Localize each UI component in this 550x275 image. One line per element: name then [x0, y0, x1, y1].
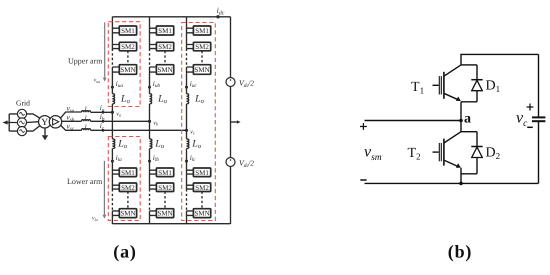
svg-text:Lo: Lo: [191, 139, 202, 150]
svg-text:SM2: SM2: [121, 43, 135, 51]
upper arm voltage bracket arrow v_ua: [104, 22, 106, 77]
lower arm current i_lc junction: [186, 149, 188, 190]
submodule SM1 lower leg a: [119, 168, 136, 177]
wires sources to transformer: [27, 114, 40, 131]
svg-text:Lo: Lo: [154, 139, 165, 150]
top rail wire: [461, 54, 539, 65]
leg b lower dashed continuation wire: [149, 189, 151, 211]
leg c wire inductor to AC node: [186, 104, 188, 130]
svg-text:SM1: SM1: [195, 27, 209, 35]
leg c upper dashed continuation wire: [186, 49, 188, 67]
leg c lower dashed continuation wire: [186, 189, 188, 211]
leg c lower SMN connection wire: [187, 211, 194, 224]
upper arm inductor L_o leg b: [150, 94, 152, 104]
submodule SM2 lower leg a: [119, 183, 136, 192]
phase current label i_a and junction: [102, 111, 105, 114]
leg a lower dashed continuation wire: [111, 189, 113, 211]
lower arm inductor L_o leg b: [150, 139, 152, 149]
upper arm inductor L_o leg c: [187, 94, 189, 104]
SM terminal wire +: [365, 120, 462, 122]
submodule SM2 lower leg c: [193, 183, 210, 192]
AC node v_a: [111, 111, 114, 114]
svg-text:ilc: ilc: [190, 153, 197, 163]
submodule SM2 upper leg c: [193, 42, 210, 51]
submodule SM1 lower leg c: [193, 168, 210, 177]
phase c wire from transformer: [60, 125, 81, 130]
diode D2: [476, 132, 478, 147]
phase b wire from transformer: [62, 120, 82, 122]
svg-text:ilb: ilb: [153, 153, 160, 163]
upper arm current i_ub junction: [148, 86, 151, 89]
svg-text:/2: /2: [247, 158, 254, 167]
svg-text:(a): (a): [113, 242, 136, 262]
transformer delta winding: [49, 116, 61, 128]
svg-text:D2: D2: [486, 145, 501, 161]
leg a lower SMN connection wire: [112, 211, 119, 224]
svg-text:SM2: SM2: [121, 184, 135, 192]
svg-text:vsm: vsm: [364, 143, 382, 163]
svg-text:ila: ila: [116, 153, 123, 163]
DC midpoint arrow: [231, 121, 237, 123]
transformer ground arrow: [44, 128, 46, 135]
svg-text:l: l: [85, 105, 87, 113]
svg-text:vb: vb: [153, 120, 159, 126]
svg-text:Lo: Lo: [120, 94, 131, 105]
red dashed box lower arm leg a: [108, 137, 140, 221]
svg-text:SM2: SM2: [195, 43, 209, 51]
leg a lower chain wire: [112, 170, 119, 189]
svg-text:l: l: [85, 114, 87, 122]
bottom rail wire: [365, 182, 539, 184]
leg b upper SMN connection wire: [150, 67, 157, 94]
svg-text:T2: T2: [408, 146, 421, 162]
upper arm inductor L_o leg a: [112, 94, 114, 104]
node a: [459, 119, 463, 123]
leg c upper chain wire: [187, 17, 194, 49]
phase b wire to leg: [91, 120, 150, 122]
svg-text:Lo: Lo: [157, 94, 168, 105]
svg-text:vc: vc: [190, 129, 195, 135]
wire T2 emitter to bottom rail: [460, 168, 462, 184]
upper arm current i_ua junction: [111, 86, 114, 89]
svg-text:SMN: SMN: [194, 210, 209, 218]
lower arm current i_lb junction: [149, 149, 151, 190]
svg-text:/2: /2: [247, 78, 254, 87]
diode D1: [476, 65, 478, 80]
upper arm current i_uc junction: [185, 86, 188, 89]
red dashed box full leg c: [182, 23, 216, 221]
submodule SMN lower leg b: [156, 209, 173, 218]
submodule SM1 upper leg a: [119, 26, 136, 35]
AC source phase c: [17, 127, 26, 136]
svg-text:SM1: SM1: [121, 169, 135, 177]
submodule SMN lower leg c: [193, 209, 210, 218]
wire T1 emitter to node a: [460, 102, 462, 121]
leg b wire inductor to AC node: [149, 104, 151, 121]
leg a upper dashed continuation wire: [111, 49, 113, 67]
svg-text:T1: T1: [411, 80, 424, 96]
svg-text:iuc: iuc: [190, 79, 198, 89]
phase a wire from transformer: [60, 112, 81, 118]
svg-text:l: l: [85, 123, 87, 131]
submodule SM1 lower leg b: [156, 168, 173, 177]
line inductor phase a: [82, 111, 91, 113]
svg-text:Lo: Lo: [194, 94, 205, 105]
top DC bus: [112, 16, 230, 18]
svg-text:idc: idc: [217, 6, 225, 16]
transistor T1: [461, 64, 477, 66]
submodule SM2 upper leg b: [156, 42, 173, 51]
leg a wire node to lower inductor: [111, 112, 113, 139]
submodule SMN upper leg c: [193, 65, 210, 75]
submodule SM1 upper leg b: [156, 26, 173, 35]
svg-text:iub: iub: [153, 79, 161, 89]
phase current label i_b and junction: [102, 120, 105, 123]
svg-text:vua: vua: [94, 77, 100, 83]
right rail wire with capacitor gap: [538, 54, 540, 183]
svg-text:SMN: SMN: [120, 66, 135, 74]
line inductor phase c: [82, 129, 91, 131]
right DC link wire: [230, 17, 232, 224]
leg c upper SMN connection wire: [187, 67, 194, 94]
svg-text:Lo: Lo: [117, 139, 128, 150]
svg-text:SMN: SMN: [157, 210, 172, 218]
svg-text:Upper arm: Upper arm: [68, 57, 103, 66]
wire node a to T2: [460, 121, 462, 132]
lower arm inductor L_o leg a: [112, 139, 114, 149]
svg-text:SM2: SM2: [158, 184, 172, 192]
svg-text:SM1: SM1: [195, 169, 209, 177]
svg-text:a: a: [464, 111, 471, 126]
phase current label i_c and junction: [102, 129, 105, 132]
DC source Vdc/2 lower: [226, 158, 235, 167]
submodule SMN upper leg a: [119, 65, 136, 75]
leg b lower chain wire: [150, 170, 157, 189]
lower arm voltage bracket arrow v_la: [103, 161, 105, 215]
line inductor phase b: [82, 120, 91, 122]
lower arm current i_la junction: [111, 149, 113, 190]
svg-text:vc: vc: [516, 109, 528, 128]
transistor T2: [461, 131, 477, 133]
leg b upper chain wire: [150, 17, 157, 49]
svg-text:SMN: SMN: [194, 66, 209, 74]
submodule SMN lower leg a: [119, 209, 136, 218]
capacitor voltage label v_c: [527, 104, 534, 111]
svg-text:vsc: vsc: [67, 122, 75, 132]
svg-text:ic: ic: [100, 121, 105, 131]
leg b wire node to lower inductor: [149, 121, 151, 139]
submodule SM2 lower leg b: [156, 183, 173, 192]
leg b upper dashed continuation wire: [149, 49, 151, 67]
svg-text:SMN: SMN: [120, 210, 135, 218]
svg-text:va: va: [116, 111, 121, 117]
terminal polarity and v_sm labels: [360, 123, 367, 130]
leg a wire inductor to AC node: [111, 104, 113, 112]
submodule SMN upper leg b: [156, 65, 173, 75]
AC node v_b: [148, 120, 151, 123]
capacitor C plates: [532, 116, 545, 118]
leg c wire node to lower inductor: [186, 130, 188, 139]
red dashed box upper arm leg a: [108, 22, 140, 107]
svg-text:D1: D1: [486, 79, 501, 95]
submodule SM1 upper leg c: [193, 26, 210, 35]
svg-text:SMN: SMN: [157, 66, 172, 74]
AC source phase b: [17, 118, 26, 127]
svg-text:SM1: SM1: [158, 169, 172, 177]
submodule SM2 upper leg a: [119, 42, 136, 51]
svg-text:Lower arm: Lower arm: [67, 177, 103, 186]
DC source Vdc/2 upper: [226, 78, 235, 87]
svg-text:vla: vla: [92, 215, 98, 221]
grid bus wire with left arrow: [6, 114, 18, 131]
bottom DC bus: [112, 223, 230, 225]
svg-text:(b): (b): [448, 242, 472, 262]
leg a upper SMN connection wire: [112, 67, 119, 94]
i_dc label and junction: [216, 15, 219, 18]
phase c wire to leg: [91, 129, 187, 131]
AC source phase a: [17, 109, 26, 118]
svg-text:Y: Y: [41, 118, 48, 128]
svg-text:SM1: SM1: [121, 27, 135, 35]
AC node v_c: [185, 129, 188, 132]
svg-text:SM2: SM2: [158, 43, 172, 51]
svg-text:SM2: SM2: [195, 184, 209, 192]
svg-text:iua: iua: [116, 79, 124, 89]
lower arm inductor L_o leg c: [187, 139, 189, 149]
svg-text:Grid: Grid: [16, 98, 30, 107]
phase a wire to leg: [91, 111, 113, 113]
svg-text:SM1: SM1: [158, 27, 172, 35]
transformer Y winding U1: [39, 116, 51, 128]
leg a upper chain wire: [112, 17, 119, 49]
leg c lower chain wire: [187, 170, 194, 189]
leg b lower SMN connection wire: [150, 211, 157, 224]
